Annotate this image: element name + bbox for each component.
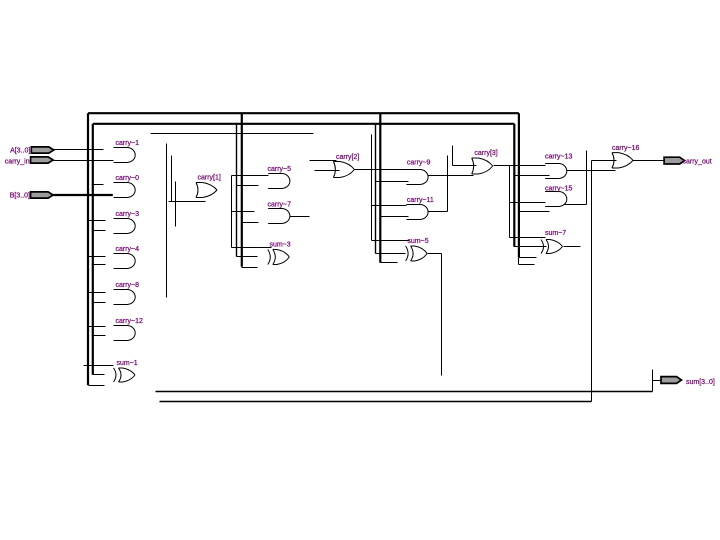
and gate carry~9: [406, 159, 430, 184]
wire carry~11 lower input: [381, 216, 409, 218]
wire stub carry~3 upper input: [89, 220, 106, 222]
wire carry[3] output: [494, 165, 546, 167]
wire col4 outer vertical tail: [518, 258, 520, 265]
wire carry~15 upper input: [510, 202, 546, 204]
wire carry~11 output: [428, 211, 448, 213]
wire from port B (bus): [53, 194, 113, 196]
wire stub carry~0 upper input: [93, 184, 104, 186]
wire stub carry~3 lower input: [93, 230, 106, 232]
svg-text:carry~11: carry~11: [407, 197, 434, 204]
wire sum~5 bottom input: [381, 262, 398, 264]
wire carry~7 upper input: [232, 211, 255, 213]
wire stub carry~8 upper input: [89, 292, 106, 294]
and gate carry~12: [114, 318, 144, 341]
wire stub to sum port: [653, 380, 662, 382]
wire sum~3 top input: [232, 247, 272, 249]
svg-text:sum[3..0]: sum[3..0]: [686, 379, 715, 386]
wire carry~13 lower input: [514, 175, 550, 177]
wire carry~5 lower input: [237, 185, 259, 187]
wire col3 inner vertical: [375, 124, 377, 254]
wire stub carry~4 upper input: [89, 256, 106, 258]
wire vertical net at x652: [652, 370, 654, 392]
svg-text:carry~4: carry~4: [116, 246, 140, 253]
wire bottom sum bus 2: [160, 401, 592, 403]
xor gate sum~7: [541, 230, 566, 253]
svg-text:carry~9: carry~9: [407, 159, 431, 166]
wire carry[2] output: [355, 169, 407, 171]
and gate carry~8: [114, 282, 140, 305]
wire sum~7 middle input: [514, 246, 547, 248]
svg-text:carry_in: carry_in: [5, 158, 30, 165]
svg-text:carry~3: carry~3: [116, 211, 140, 218]
and gate carry~4: [114, 246, 140, 269]
wire carry~15 lower input: [519, 211, 550, 213]
wire carry~16 upper input: [592, 160, 617, 162]
wire col4 outer vertical: [518, 113, 520, 257]
wire sum~5 top input: [372, 240, 410, 242]
wire carry[3] upper input: [453, 165, 477, 167]
and gate carry~0: [114, 175, 140, 198]
xor gate sum~5: [406, 238, 429, 261]
svg-text:carry_out: carry_out: [683, 158, 712, 165]
xor gate sum~3: [268, 242, 291, 265]
wire vertical net at x171: [171, 156, 173, 202]
wire vertical net at x452: [452, 146, 454, 166]
svg-text:carry[2]: carry[2]: [336, 154, 359, 161]
xor gate sum~1: [114, 360, 138, 382]
wire col2 outer vertical: [241, 114, 243, 267]
wire sum~1 middle input: [93, 374, 105, 376]
wire A-bus top horizontal: [88, 112, 519, 114]
wire from port carry_in: [54, 160, 114, 162]
wire A-bus left vertical: [87, 113, 89, 385]
svg-text:carry~13: carry~13: [545, 154, 573, 161]
wire carry~11 upper input: [372, 205, 407, 207]
svg-text:carry~1: carry~1: [116, 140, 140, 147]
wire stub below sum~7: [519, 264, 535, 266]
wire bottom sum bus 1: [156, 391, 653, 393]
svg-text:carry~8: carry~8: [116, 282, 140, 289]
wire carry~13 output: [567, 170, 616, 172]
svg-text:sum~5: sum~5: [407, 238, 428, 245]
wire vertical net at x166: [166, 144, 168, 298]
svg-text:carry~16: carry~16: [612, 145, 640, 152]
wire stub carry~4 lower input: [93, 264, 106, 266]
wire B-bus left vertical: [92, 124, 94, 375]
wire vertical net at x591: [591, 161, 593, 402]
wire sum~3 bottom input: [242, 267, 258, 269]
and gate carry~3: [114, 211, 140, 234]
wire carry[2] upper input: [310, 160, 337, 162]
wire sum~3 middle input: [237, 256, 258, 258]
wire B-bus top horizontal: [93, 123, 515, 125]
wire stub carry~12 upper input: [89, 326, 106, 328]
input port A[3..0]: [10, 147, 54, 155]
svg-text:sum~1: sum~1: [117, 360, 138, 367]
wire col4 inner vertical: [513, 124, 515, 247]
wire carry[1] lower input: [169, 201, 206, 203]
svg-text:A[3..0]: A[3..0]: [10, 148, 30, 155]
wire col2 inner vertical: [236, 125, 238, 257]
wire stub carry~8 lower input: [93, 302, 106, 304]
wire vertical net at x371: [371, 135, 373, 241]
wire carry~15 output: [564, 204, 587, 206]
wire carry~16 output to carry_out: [633, 160, 665, 162]
wire vertical net at x586: [586, 151, 588, 205]
wire sum~7 output: [564, 246, 581, 248]
or gate carry[3]: [472, 150, 498, 174]
and gate carry~15: [545, 186, 573, 207]
wire sum~5 middle input: [376, 253, 406, 255]
input port B[3..0]: [10, 192, 53, 200]
wire carry~5 upper input: [232, 175, 269, 177]
wire vertical net at x509: [509, 166, 511, 238]
or gate carry[1]: [196, 175, 221, 198]
wire sum~5 output: [428, 253, 442, 255]
wire stub carry~12 lower input: [93, 335, 106, 337]
wire col3 outer vertical: [379, 113, 381, 263]
wire horizontal net y133: [151, 133, 314, 135]
svg-text:sum~7: sum~7: [545, 230, 566, 237]
svg-text:carry~0: carry~0: [116, 175, 140, 182]
wire carry~7 lower input: [242, 222, 259, 224]
wire vertical net at x175: [175, 182, 177, 227]
svg-text:carry~7: carry~7: [268, 201, 292, 208]
output port sum[3..0]: [661, 377, 715, 386]
wire carry~7 output: [290, 216, 310, 218]
svg-text:carry~15: carry~15: [545, 186, 573, 193]
output port carry_out: [664, 157, 712, 165]
svg-text:carry~5: carry~5: [268, 166, 292, 173]
wire sum~1 top input: [84, 365, 114, 367]
wire vertical net at x231: [231, 176, 233, 248]
wire carry~9 lower input: [376, 181, 409, 183]
svg-text:carry[1]: carry[1]: [198, 175, 221, 182]
and gate carry~5: [268, 166, 292, 189]
or gate carry~16: [612, 145, 640, 168]
svg-text:carry~12: carry~12: [116, 318, 144, 325]
and gate carry~13: [545, 154, 573, 179]
and gate carry~11: [406, 197, 434, 220]
svg-text:carry[3]: carry[3]: [474, 150, 497, 157]
wire sum~7 top input: [510, 237, 546, 239]
and gate carry~7: [268, 201, 292, 223]
or gate carry[2]: [333, 154, 359, 178]
wire from port A: [54, 149, 104, 151]
svg-text:B[3..0]: B[3..0]: [10, 193, 30, 200]
wire sum~1 bottom input: [89, 385, 105, 387]
wire carry~9 output: [428, 175, 474, 177]
wire sum~7 bottom input: [519, 257, 537, 259]
and gate carry~1: [114, 140, 140, 163]
wire vertical net at x441: [441, 254, 443, 376]
input port carry_in: [5, 157, 53, 165]
wire vertical net at x447: [447, 156, 449, 212]
svg-text:sum~3: sum~3: [270, 242, 291, 249]
wire carry[2] lower input: [315, 170, 340, 172]
